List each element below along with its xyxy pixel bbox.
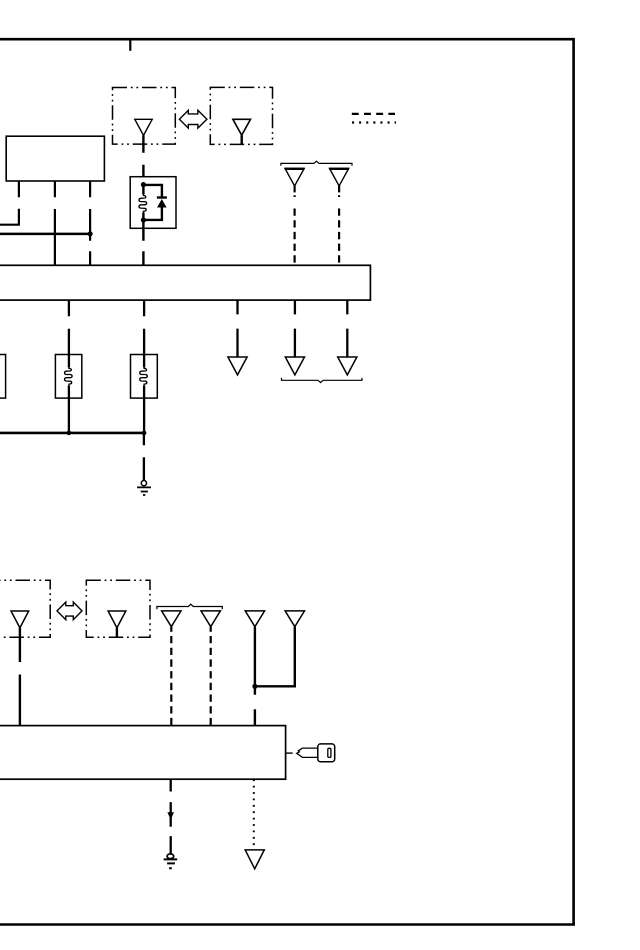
- wire to ground G1: [143, 434, 145, 480]
- wire Ta dashed: [294, 209, 296, 265]
- stem B2: [240, 135, 242, 144]
- U1 diode: [157, 199, 167, 208]
- C1 leads: [68, 355, 70, 432]
- wire W10: [170, 779, 172, 854]
- wire A1: [236, 300, 238, 357]
- ground G1 bars: [137, 487, 151, 495]
- connector box L2: [86, 580, 150, 637]
- out arrow A3: [338, 357, 357, 375]
- connector box L1: [0, 580, 50, 637]
- junction dot C1: [67, 431, 72, 436]
- ground G2 eyelet: [167, 854, 174, 859]
- border tick: [129, 40, 131, 51]
- under brace: [282, 378, 363, 383]
- legend dotted line: [352, 121, 396, 123]
- U1 coil branch: [142, 185, 144, 220]
- triangle in L2: [108, 611, 126, 628]
- wire Tb: [338, 186, 340, 197]
- wire Ta: [294, 186, 296, 197]
- legend dashed line: [352, 113, 395, 115]
- ground G2 bars: [164, 859, 178, 868]
- wire T3: [254, 627, 256, 726]
- border bottom: [0, 923, 575, 925]
- ground G1 eyelet: [141, 481, 146, 486]
- triangle in L1: [11, 611, 29, 628]
- U1 bottom junction: [141, 217, 146, 222]
- ground rail: [0, 432, 144, 435]
- border top: [0, 38, 575, 41]
- connector box B1: [113, 88, 176, 145]
- wire pin 2: [54, 181, 56, 266]
- control unit M1: [0, 265, 370, 300]
- power rail: [0, 233, 90, 236]
- triangle T1: [162, 611, 181, 627]
- wire A3: [346, 300, 348, 357]
- out arrow A2: [285, 357, 304, 375]
- Tb top bar: [329, 168, 349, 170]
- wire A2: [294, 300, 296, 357]
- wire dotted W11: [253, 779, 255, 847]
- stem T2: [210, 627, 212, 632]
- triangle in B1: [135, 119, 152, 135]
- wire Tb dashed: [338, 209, 340, 265]
- brace top pair: [281, 161, 352, 166]
- wire T2 dashed: [210, 636, 212, 726]
- coil box C1: [55, 355, 81, 399]
- key slot: [328, 748, 331, 757]
- wire pin 3: [89, 181, 91, 266]
- triangle T3: [245, 611, 264, 627]
- Ta top bar: [285, 168, 305, 170]
- U1 diode wires: [143, 185, 162, 220]
- triangle T4: [285, 611, 304, 627]
- stem L2: [116, 628, 118, 637]
- key pin: [286, 752, 293, 754]
- brace lower: [157, 604, 222, 609]
- U1 top junction: [141, 182, 146, 187]
- coil box C2: [131, 355, 158, 399]
- relay U1 box: [130, 177, 176, 229]
- wire below U1: [142, 222, 144, 266]
- out arrow A1: [228, 357, 247, 375]
- U1 coil: [139, 194, 147, 212]
- border right: [572, 38, 575, 926]
- key shaft: [297, 748, 318, 757]
- stem T1: [170, 627, 172, 632]
- triangle in B2: [233, 119, 251, 135]
- junction dot lower: [252, 684, 257, 689]
- control unit M2: [0, 726, 286, 780]
- key head: [318, 744, 335, 762]
- wire antenna 1: [142, 135, 144, 185]
- C1 coil: [65, 367, 73, 385]
- coil box C0 cut: [0, 355, 6, 399]
- connector box B2: [210, 87, 272, 144]
- wire W6: [143, 300, 145, 354]
- C2 leads: [143, 355, 145, 432]
- double arrow: [179, 110, 207, 128]
- junction dot C2: [142, 431, 147, 436]
- double arrow lower: [57, 602, 82, 620]
- junction dot: [88, 231, 93, 236]
- C2 coil: [140, 367, 148, 385]
- triangle Tb: [330, 168, 349, 186]
- triangle Ta: [285, 168, 304, 186]
- wire T4 elbow: [255, 627, 295, 687]
- wire from L1: [19, 628, 21, 726]
- wire W5: [68, 300, 70, 354]
- wire pin 1: [0, 181, 20, 225]
- out arrow T5: [245, 850, 264, 869]
- wire T1 dashed: [170, 636, 172, 726]
- relay box A: [6, 136, 104, 181]
- triangle T2: [201, 611, 220, 627]
- flow arrow: [167, 812, 174, 820]
- U1 diode bar: [157, 196, 167, 198]
